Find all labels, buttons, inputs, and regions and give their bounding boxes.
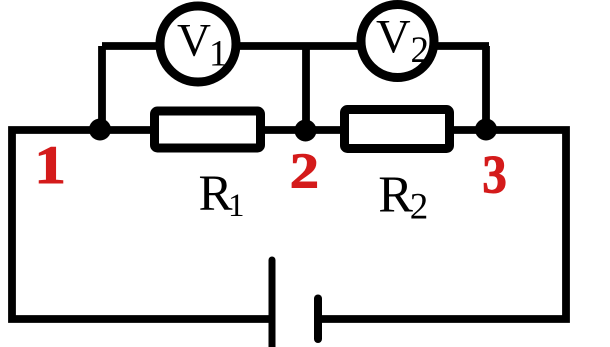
- svg-text:2: 2: [410, 187, 429, 228]
- node 2 junction dot: [295, 120, 317, 142]
- node 3 junction dot: [475, 119, 497, 141]
- wire: riser node 2 to top: [302, 46, 310, 131]
- svg-text:R: R: [378, 166, 413, 223]
- wire: riser node 3 to top: [482, 46, 490, 130]
- svg-text:3: 3: [482, 145, 507, 205]
- wire: riser node 1 to top: [98, 46, 106, 130]
- svg-text:2: 2: [290, 143, 319, 198]
- voltmeter V2 circle: [361, 5, 434, 78]
- resistor R2 body: [345, 110, 450, 149]
- svg-text:1: 1: [228, 188, 245, 224]
- svg-text:V: V: [177, 15, 211, 67]
- node 1 junction dot: [89, 119, 111, 141]
- svg-text:V: V: [376, 10, 411, 63]
- wire: top rail through voltmeters: [102, 42, 489, 50]
- node label 2: [290, 143, 319, 198]
- svg-text:1: 1: [209, 33, 228, 74]
- wire: R2 to node 3: [449, 126, 486, 134]
- battery long plate (positive): [269, 260, 276, 347]
- node label 3: [482, 145, 507, 205]
- wire: node 1 to resistor R1: [100, 126, 156, 134]
- wire: right loop from battery short plate up to node 3: [318, 130, 566, 319]
- battery short plate (negative): [314, 299, 322, 340]
- resistor R1 body: [155, 111, 261, 148]
- wire: left loop from node 1 down to battery long plate: [12, 130, 272, 319]
- voltmeter V1 circle: [160, 6, 236, 82]
- svg-text:2: 2: [411, 30, 430, 71]
- svg-text:1: 1: [34, 135, 66, 195]
- wire: R1 to node 2 to R2: [260, 126, 345, 134]
- node label 1: [34, 135, 66, 195]
